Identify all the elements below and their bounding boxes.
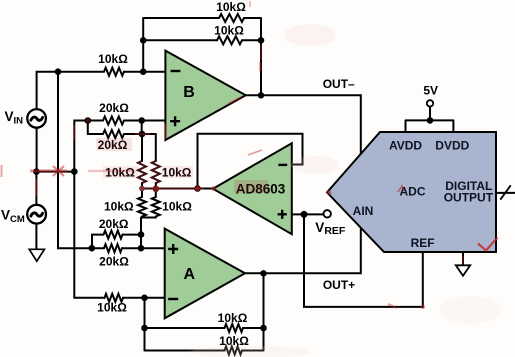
node B output feedback tap bbox=[258, 37, 265, 44]
wire 5V to AVDD/DVDD bbox=[406, 107, 454, 132]
red artifact on op-amp B edges bbox=[164, 124, 166, 139]
wire V_IN node down left rail bbox=[58, 72, 92, 249]
digital output bus wire bbox=[496, 192, 515, 194]
node B 20k right lower bbox=[139, 131, 146, 138]
wire VREF to ADC REF pin bbox=[304, 214, 423, 307]
node ladder mid left bbox=[139, 186, 145, 192]
wire AD8603 feedback bbox=[198, 134, 303, 189]
resistor 20k (A + lower) bbox=[104, 244, 122, 252]
wire B + lower 20k row bbox=[88, 121, 156, 135]
source V_CM bbox=[35, 172, 37, 205]
pin plus AD8603 bbox=[278, 210, 287, 219]
svg-text:AVDD: AVDD bbox=[389, 139, 422, 153]
resistor 10k (ladder upper right) bbox=[152, 161, 160, 183]
wire OUT- from op-amp B to ADC bbox=[246, 95, 361, 154]
wire A 20k right ends tie bbox=[140, 235, 142, 249]
svg-text:10kΩ: 10kΩ bbox=[219, 334, 249, 348]
resistor 10k (A feedback inner) bbox=[225, 324, 244, 332]
wire VCM rail vertical bbox=[74, 121, 88, 298]
svg-text:OUTPUT: OUTPUT bbox=[444, 191, 494, 205]
node V_IN top junction bbox=[55, 68, 62, 75]
wire OUT+ from op-amp A to ADC bbox=[245, 227, 361, 273]
node A inner loop right tap bbox=[260, 325, 267, 332]
wire ladder mid row to buffer output bbox=[142, 188, 213, 190]
wire B feedback inner loop bbox=[143, 39, 261, 41]
op-amp A bbox=[165, 229, 245, 319]
terminal VREF open circle bbox=[324, 210, 331, 217]
resistor 10k (B feedback inner) bbox=[217, 36, 242, 44]
bus slash bbox=[500, 185, 510, 199]
svg-text:10kΩ: 10kΩ bbox=[214, 24, 244, 38]
ground (V_CM) bbox=[29, 249, 44, 261]
resistor 20k (A + upper) bbox=[104, 231, 123, 239]
wire B feedback left vertical bbox=[142, 18, 144, 72]
red artifact left edge bbox=[1, 165, 3, 177]
wire resistor ladder left column bbox=[141, 134, 143, 218]
wire B- input row bbox=[37, 71, 166, 73]
svg-text:B: B bbox=[183, 84, 195, 101]
svg-text:10kΩ: 10kΩ bbox=[218, 311, 248, 325]
red artifact near REF wire bbox=[388, 304, 397, 308]
wire A feedback outer loop bbox=[145, 273, 264, 350]
node B 20k right upper bbox=[138, 117, 145, 124]
wire V_IN bottom bbox=[36, 128, 38, 172]
red artifact on ground stem bbox=[462, 256, 464, 264]
resistor 10k (ladder lower left) bbox=[138, 197, 146, 217]
source V_IN bbox=[27, 109, 46, 128]
svg-text:A: A bbox=[184, 266, 196, 283]
red artifact ADC point bbox=[327, 190, 332, 195]
resistor 20k (B + upper) bbox=[103, 117, 124, 125]
node A 20k right lower bbox=[138, 245, 145, 252]
resistor 10k (B feedback outer) bbox=[219, 14, 244, 22]
pin minus AD8603 bbox=[278, 164, 287, 166]
node A - feedback joins bbox=[141, 295, 148, 302]
svg-text:5V: 5V bbox=[423, 84, 438, 98]
svg-text:REF: REF bbox=[411, 236, 435, 250]
svg-text:20kΩ: 20kΩ bbox=[99, 217, 129, 231]
red artifact ladder tint bbox=[138, 161, 146, 183]
ADC block bbox=[327, 132, 496, 252]
resistor 20k (B + lower) bbox=[103, 130, 124, 138]
svg-text:OUT–: OUT– bbox=[323, 77, 355, 91]
svg-text:10kΩ: 10kΩ bbox=[98, 52, 128, 66]
resistor 10k (ladder lower right) bbox=[152, 197, 160, 217]
node 5V split bbox=[427, 117, 434, 124]
svg-text:10kΩ: 10kΩ bbox=[162, 200, 192, 214]
wire V_IN top to B- row bbox=[36, 72, 38, 110]
node B 20k left bbox=[85, 117, 92, 124]
wire V_CM to ground bbox=[35, 224, 37, 250]
pin minus op-amp B bbox=[171, 70, 181, 72]
resistor 10k (ladder upper left) bbox=[138, 161, 146, 183]
pin plus op-amp A bbox=[168, 244, 178, 254]
red artifact on VCM stem bbox=[35, 179, 37, 196]
op-amp B bbox=[165, 51, 245, 140]
svg-text:10kΩ: 10kΩ bbox=[97, 301, 127, 315]
ground (ADC DGND) bbox=[462, 252, 464, 265]
svg-text:10kΩ: 10kΩ bbox=[104, 200, 134, 214]
svg-text:20kΩ: 20kΩ bbox=[99, 255, 129, 269]
resistor 10k (A feedback outer) bbox=[225, 347, 243, 355]
node buffer output junction bbox=[194, 185, 201, 192]
node A 20k right upper bbox=[138, 231, 145, 238]
svg-text:ADC: ADC bbox=[400, 185, 426, 199]
wire ladder bottom node bbox=[141, 218, 156, 249]
node VCM row left bbox=[33, 168, 40, 175]
svg-text:20kΩ: 20kΩ bbox=[99, 101, 129, 115]
wire resistor ladder right column bbox=[155, 134, 157, 218]
wire 20k right ends tie bbox=[141, 121, 143, 135]
node B inner loop tap bbox=[140, 37, 147, 44]
svg-text:OUT+: OUT+ bbox=[323, 278, 355, 292]
wire A + upper 20k row bbox=[92, 235, 141, 249]
node VCM row right bbox=[71, 168, 78, 175]
wire A + lower 20k row bbox=[92, 247, 165, 249]
red artifact near B 20k nodes bbox=[86, 118, 90, 122]
pin minus op-amp A bbox=[168, 298, 178, 300]
resistor 10k (B - input) bbox=[104, 68, 124, 76]
wire B + input upper 20k row bbox=[88, 120, 166, 122]
svg-text:DVDD: DVDD bbox=[435, 139, 469, 153]
svg-text:AIN: AIN bbox=[353, 204, 374, 218]
node B output junction bbox=[258, 92, 264, 98]
node B feedback joins - input bbox=[140, 68, 147, 75]
red artifact near ADC label bbox=[398, 186, 404, 192]
faint background smudges bbox=[284, 24, 336, 46]
red artifact streak on VCM row bbox=[30, 169, 67, 172]
wire AD8603 + input to VREF terminal bbox=[291, 213, 324, 215]
node ladder mid right bbox=[153, 186, 160, 193]
node A 20k left bbox=[89, 245, 96, 252]
wire B feedback outer loop bbox=[143, 18, 261, 95]
op-amp U1 AD8603 (reference buffer, points left) bbox=[213, 143, 292, 234]
node A inner loop tap bbox=[141, 325, 148, 332]
red artifact AD8603 bbox=[234, 180, 268, 193]
node A output junction bbox=[260, 270, 266, 276]
node VREF junction bbox=[301, 211, 308, 218]
wire A feedback inner loop bbox=[145, 327, 264, 329]
wire A feedback left vertical bbox=[144, 298, 146, 351]
pin plus op-amp B bbox=[170, 116, 180, 126]
wire A - input row bbox=[74, 297, 164, 299]
resistor 10k (A - input) bbox=[105, 294, 124, 302]
red artifact check mark bottom right of ADC bbox=[478, 238, 498, 251]
wire VCM row bbox=[36, 171, 74, 173]
red artifact mid row bbox=[142, 188, 204, 190]
svg-text:10kΩ: 10kΩ bbox=[216, 0, 246, 14]
